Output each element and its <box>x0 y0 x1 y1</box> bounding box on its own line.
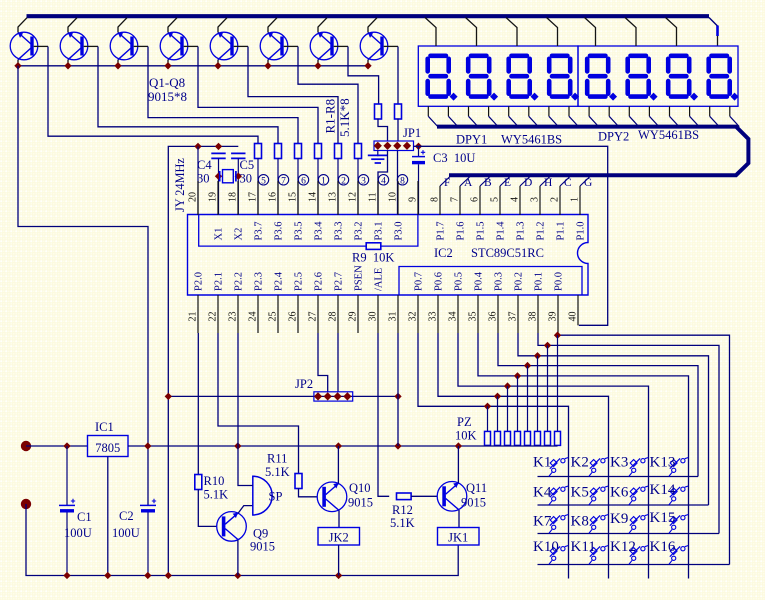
junction RST node <box>415 143 422 150</box>
svg-text:P1.6: P1.6 <box>456 222 467 241</box>
svg-text:P1.2: P1.2 <box>536 222 547 241</box>
digit 1 <box>428 56 458 101</box>
svg-text:1: 1 <box>321 176 326 186</box>
bus entry pin 7 <box>460 176 471 186</box>
svg-text:5.1K: 5.1K <box>265 465 290 479</box>
wire net P0.3 <box>498 333 698 477</box>
switch K3 <box>629 458 649 477</box>
wire key row 2 <box>538 504 709 506</box>
junction X1 <box>215 173 222 180</box>
pin 11 <box>377 181 379 215</box>
junction Q5 collector <box>214 62 221 69</box>
svg-text:IC2: IC2 <box>434 246 453 260</box>
resistor R3 <box>295 144 302 159</box>
svg-text:D: D <box>524 177 532 189</box>
wire R1 to pin <box>257 159 259 216</box>
wire pin30 to R12 <box>378 333 389 496</box>
pin 15 <box>297 181 299 215</box>
svg-text:5: 5 <box>261 176 266 186</box>
transistor Q3 <box>110 18 148 66</box>
connector JP2 <box>314 392 353 401</box>
wire pin28 to JP2 <box>337 333 339 392</box>
resistor R1 <box>255 144 262 159</box>
svg-text:P0.3: P0.3 <box>494 272 505 291</box>
pin 24 <box>257 295 259 333</box>
wire pin31 to +5V <box>397 333 399 446</box>
switch K13 <box>669 458 689 477</box>
svg-text:6: 6 <box>301 176 306 186</box>
speaker SP <box>253 476 272 515</box>
svg-text:K6: K6 <box>610 485 629 501</box>
svg-text:2: 2 <box>550 197 561 202</box>
pin 21 <box>197 295 199 333</box>
pin 10 <box>397 181 399 215</box>
wire pin23 to SP <box>238 333 253 486</box>
svg-text:19: 19 <box>208 192 219 202</box>
switch K4 <box>549 486 569 505</box>
wire X1 <box>218 158 220 215</box>
svg-text:E: E <box>504 177 511 189</box>
svg-text:P2.7: P2.7 <box>334 272 345 291</box>
wire display segment pin 16 <box>729 106 731 116</box>
junction pin20 gnd <box>194 143 201 150</box>
wire X2 <box>237 158 239 215</box>
svg-text:4: 4 <box>510 197 521 202</box>
svg-text:1: 1 <box>570 197 581 202</box>
node label (2) <box>338 175 348 185</box>
svg-text:K9: K9 <box>610 511 628 527</box>
svg-text:K5: K5 <box>571 485 589 501</box>
pin 23 <box>237 295 239 333</box>
wire JP1 to pin11 <box>378 151 388 216</box>
wire pin20 <box>197 146 199 215</box>
transistor Q10 <box>317 482 347 512</box>
svg-text:JY 24MHz: JY 24MHz <box>173 158 187 212</box>
svg-text:K16: K16 <box>650 539 676 555</box>
pin 4 <box>519 186 521 215</box>
svg-text:P3.5: P3.5 <box>294 222 305 241</box>
wire Q3 base to R3 <box>148 47 298 144</box>
wire +5V left route <box>18 66 148 505</box>
svg-text:B: B <box>484 177 492 189</box>
display DPY2 WY5461BS <box>578 46 738 106</box>
transistor Q8 <box>360 18 398 66</box>
transistor Q2 <box>60 18 98 66</box>
wire digit 1 anode <box>425 18 436 47</box>
wire display segment pin 10 <box>608 106 610 116</box>
resistor network PZ element 1 <box>484 403 491 410</box>
wire collector rail <box>18 65 368 67</box>
wire R4 to pin <box>317 159 319 216</box>
svg-text:5.1K: 5.1K <box>390 516 415 530</box>
svg-text:P2.6: P2.6 <box>314 272 325 291</box>
svg-text:SP: SP <box>269 490 283 504</box>
svg-text:C3 10U: C3 10U <box>433 151 475 165</box>
resistor R4 <box>315 144 322 159</box>
bus entry pin 6 <box>480 176 491 186</box>
switch K7 <box>549 515 569 534</box>
wire display segment pin 13 <box>669 106 671 116</box>
resistor network PZ element 5 <box>524 362 531 369</box>
svg-text:WY5461BS: WY5461BS <box>501 133 562 147</box>
bus entry pin 8 <box>440 176 451 186</box>
terminal VIN- <box>21 499 31 509</box>
crystal JY 24MHz <box>220 171 236 182</box>
svg-text:C1: C1 <box>77 510 92 524</box>
pin 22 <box>217 295 219 333</box>
pin 2 <box>559 186 561 215</box>
svg-text:22: 22 <box>208 312 219 322</box>
svg-text:30: 30 <box>197 172 210 186</box>
transistor Q6 <box>260 18 298 66</box>
pin 5 <box>499 186 501 215</box>
svg-text:P0.4: P0.4 <box>474 271 485 291</box>
svg-text:K12: K12 <box>610 539 636 555</box>
wire display segment pin 4 <box>488 106 490 116</box>
svg-text:P0.1: P0.1 <box>534 272 545 291</box>
svg-text:IC1: IC1 <box>95 420 114 434</box>
svg-text:32: 32 <box>408 312 419 322</box>
wire display segment pin 3 <box>468 106 470 116</box>
svg-text:G: G <box>584 177 592 189</box>
svg-text:X1: X1 <box>214 228 225 241</box>
svg-text:6: 6 <box>470 197 481 202</box>
svg-text:18: 18 <box>228 192 239 202</box>
svg-text:K2: K2 <box>571 455 589 471</box>
wire display segment pin 11 <box>628 106 630 116</box>
svg-text:4: 4 <box>381 176 386 186</box>
resistor network PZ element 6 <box>534 352 541 359</box>
svg-text:8: 8 <box>400 176 405 186</box>
terminal VIN+ <box>21 441 31 451</box>
wire Q1 base to R1 <box>48 47 258 144</box>
switch K2 <box>589 458 609 477</box>
wire key row 3 <box>538 533 720 535</box>
wire pin21 to R10 <box>197 333 199 475</box>
svg-text:C5: C5 <box>240 158 255 172</box>
svg-text:7: 7 <box>281 176 286 186</box>
pin 8 <box>439 186 441 215</box>
svg-text:Q9: Q9 <box>253 527 268 541</box>
pin 18 <box>237 181 239 215</box>
svg-text:P0.5: P0.5 <box>454 272 465 291</box>
node label (5) <box>258 175 268 185</box>
svg-text:P0.6: P0.6 <box>434 272 445 291</box>
pin 34 <box>457 295 459 333</box>
svg-text:P2.5: P2.5 <box>294 272 305 291</box>
resistor R10 <box>195 475 202 490</box>
pin 27 <box>317 295 319 333</box>
svg-text:9015*8: 9015*8 <box>148 89 187 104</box>
pin 14 <box>317 181 319 215</box>
transistor Q5 <box>210 18 248 66</box>
junction Q3 collector <box>114 62 121 69</box>
wire Q8 base to R8 <box>397 47 399 105</box>
wire R7 to JP1 <box>378 119 388 142</box>
switch K6 <box>629 486 649 505</box>
wire display segment pin 7 <box>548 106 550 116</box>
junction X2 <box>235 173 242 180</box>
svg-text:P3.2: P3.2 <box>354 222 365 241</box>
svg-text:34: 34 <box>448 312 459 322</box>
svg-text:14: 14 <box>308 192 319 202</box>
bus entry pin 1 <box>580 176 591 186</box>
pin 32 <box>417 295 419 333</box>
svg-text:10K: 10K <box>455 429 477 443</box>
bus entry pin 5 <box>500 176 511 186</box>
wire Q11 collector <box>457 446 459 483</box>
junction Q8 collector <box>364 62 371 69</box>
wire Q5 base to R5 <box>248 47 338 144</box>
svg-text:DPY1: DPY1 <box>456 133 487 147</box>
svg-text:P3.4: P3.4 <box>314 221 325 241</box>
switch K15 <box>669 515 689 534</box>
svg-text:36: 36 <box>488 312 499 322</box>
pin 6 <box>479 186 481 215</box>
svg-text:F: F <box>444 177 450 189</box>
pin 29 <box>357 295 359 333</box>
wire digit 7 anode <box>666 18 677 47</box>
svg-text:P2.3: P2.3 <box>254 272 265 291</box>
digit 7 <box>668 56 698 101</box>
svg-text:5: 5 <box>490 197 501 202</box>
bus entry pin 4 <box>520 176 531 186</box>
VCC bus bar (top) <box>27 14 710 18</box>
svg-text:A: A <box>464 177 473 189</box>
svg-text:R9 10K: R9 10K <box>352 251 394 265</box>
svg-text:P2.0: P2.0 <box>194 272 205 291</box>
svg-text:Q10: Q10 <box>349 481 371 495</box>
digit 5 <box>587 56 617 101</box>
svg-text:12: 12 <box>348 192 359 202</box>
wire net P0.1 <box>538 333 719 534</box>
wire R12 to Q11 base <box>411 495 437 497</box>
svg-text:7805: 7805 <box>95 441 120 455</box>
svg-text:35: 35 <box>468 312 479 322</box>
svg-text:P1.0: P1.0 <box>576 222 587 241</box>
wire ground rail (bottom) <box>26 504 458 576</box>
wire net P0.7 <box>418 333 569 579</box>
svg-text:24: 24 <box>248 312 259 322</box>
wire key row 1 <box>538 476 699 478</box>
svg-text:3: 3 <box>361 176 366 186</box>
svg-text:JP2: JP2 <box>295 377 313 391</box>
svg-text:K3: K3 <box>610 455 628 471</box>
svg-text:R12: R12 <box>392 503 413 517</box>
wire ground bus (crystal) <box>168 146 238 575</box>
node label (3) <box>358 175 368 185</box>
wire JP2 net <box>168 395 398 397</box>
node label (1) <box>318 175 328 185</box>
wire R10 to Q9 base <box>198 490 217 527</box>
switch K9 <box>629 515 649 534</box>
svg-text:C: C <box>564 177 572 189</box>
inner box (P0 group) <box>399 267 582 296</box>
capacitor C4 30 <box>211 153 225 158</box>
svg-text:26: 26 <box>288 312 299 322</box>
pin 30 <box>377 295 379 333</box>
wire digit 6 anode <box>625 18 636 47</box>
bus entry pin 2 <box>560 176 571 186</box>
resistor R9 <box>366 243 381 250</box>
resistor R8 <box>395 104 402 119</box>
pin 16 <box>277 181 279 215</box>
svg-text:JP1: JP1 <box>403 126 421 140</box>
svg-text:R1-R8: R1-R8 <box>323 99 338 134</box>
svg-text:30: 30 <box>368 312 379 322</box>
switch K16 <box>669 546 689 565</box>
junction Q2 collector <box>64 62 71 69</box>
svg-text:K10: K10 <box>533 539 559 555</box>
pin 3 <box>539 186 541 215</box>
svg-text:13: 13 <box>328 192 339 202</box>
relay jack JK2 <box>318 528 360 546</box>
wire net P0.4 <box>478 333 689 579</box>
wire Q9 collector to SP <box>238 506 253 514</box>
svg-text:/ALE: /ALE <box>374 268 385 291</box>
switch K1 <box>549 458 569 477</box>
wire 7805 gnd <box>107 457 109 576</box>
pin 25 <box>277 295 279 333</box>
svg-text:K7: K7 <box>533 514 552 530</box>
wire Q11 emitter <box>458 510 460 528</box>
svg-text:28: 28 <box>328 312 339 322</box>
transistor Q1 <box>10 18 48 66</box>
svg-text:40: 40 <box>568 312 579 322</box>
resistor R2 <box>275 144 282 159</box>
wire R5 to pin <box>337 159 339 216</box>
svg-text:P3.3: P3.3 <box>334 222 345 241</box>
svg-text:JK2: JK2 <box>329 531 349 545</box>
wire display segment pin 1 <box>427 106 429 116</box>
pin 31 <box>397 295 399 333</box>
switch K14 <box>669 486 689 505</box>
svg-text:30: 30 <box>240 172 253 186</box>
svg-text:P2.1: P2.1 <box>214 272 225 291</box>
pin 37 <box>517 295 519 333</box>
wire digit 2 anode <box>466 18 477 47</box>
resistor network PZ element 4 <box>514 372 521 379</box>
wire digit 3 anode <box>506 18 517 47</box>
svg-text:9015: 9015 <box>461 496 486 510</box>
VCC bus end chamfer <box>709 18 718 27</box>
wire digit 4 anode <box>547 18 558 47</box>
pin 26 <box>297 295 299 333</box>
pin 40 <box>577 295 579 325</box>
wire Q7 base to R7 <box>348 47 379 105</box>
pin 19 <box>217 181 219 215</box>
junction Q6 collector <box>264 62 271 69</box>
svg-text:P1.1: P1.1 <box>556 222 567 241</box>
transistor Q11 <box>437 482 467 512</box>
wire display segment pin 12 <box>648 106 650 116</box>
resistor R5 <box>335 144 342 159</box>
svg-text:29: 29 <box>348 312 359 322</box>
wire R11 to Q10 base <box>299 489 318 497</box>
wire Q2 base to R2 <box>98 47 278 144</box>
node label (6) <box>298 175 308 185</box>
svg-text:C4: C4 <box>197 158 212 172</box>
svg-text:2: 2 <box>341 176 346 186</box>
svg-text:25: 25 <box>268 312 279 322</box>
transistor Q4 <box>160 18 198 66</box>
capacitor C3 10U <box>418 146 420 156</box>
wire display segment pin 14 <box>689 106 691 116</box>
wire net P0.6 <box>438 333 609 579</box>
svg-text:H: H <box>544 177 552 189</box>
wire key row 4 <box>538 564 730 566</box>
pin 7 <box>459 186 461 215</box>
svg-text:P0.2: P0.2 <box>514 272 525 291</box>
svg-text:21: 21 <box>188 312 199 322</box>
wire pin22 to R11 <box>218 333 299 474</box>
capacitor C5 30 <box>231 153 245 158</box>
pin 39 <box>557 295 559 333</box>
wire Q4 base to R4 <box>198 47 318 144</box>
connector JP1 <box>374 141 414 151</box>
wire RST to pin40 <box>414 146 608 325</box>
svg-text:P1.5: P1.5 <box>476 222 487 241</box>
wire R6 to pin <box>357 159 359 216</box>
wire Q10 collector <box>337 446 339 484</box>
pin 20 <box>197 181 199 215</box>
svg-text:P3.7: P3.7 <box>254 222 265 241</box>
switch K12 <box>629 546 649 565</box>
pin 17 <box>257 181 259 215</box>
svg-text:100U: 100U <box>64 526 92 540</box>
capacitor C1 100U <box>66 446 68 505</box>
svg-text:DPY2: DPY2 <box>598 130 629 144</box>
pin 38 <box>537 295 539 333</box>
wire net P0.2 <box>518 333 709 505</box>
digit 2 <box>468 56 498 101</box>
wire net P0.0 <box>558 333 730 565</box>
svg-text:9015: 9015 <box>348 496 373 510</box>
regulator IC1 7805 <box>88 436 129 457</box>
svg-text:Q1-Q8: Q1-Q8 <box>149 75 185 90</box>
svg-text:5.1K: 5.1K <box>204 488 229 502</box>
ground (JP1 pin1) <box>377 151 379 157</box>
node label (8) <box>397 175 407 185</box>
svg-text:38: 38 <box>528 312 539 322</box>
svg-text:20: 20 <box>188 192 199 202</box>
svg-text:9: 9 <box>408 197 419 202</box>
svg-text:JK1: JK1 <box>448 531 468 545</box>
pin 9 <box>417 181 419 215</box>
svg-text:K13: K13 <box>650 455 676 471</box>
wire display segment pin 5 <box>508 106 510 116</box>
svg-text:R11: R11 <box>267 452 287 466</box>
svg-text:PSEN: PSEN <box>354 265 365 291</box>
svg-text:27: 27 <box>308 312 319 322</box>
svg-text:C2: C2 <box>119 509 134 523</box>
digit 6 <box>628 56 658 101</box>
wire Q10 emitter <box>338 510 340 527</box>
svg-text:P1.7: P1.7 <box>436 222 447 241</box>
svg-text:P0.7: P0.7 <box>414 272 425 291</box>
svg-text:5.1K*8: 5.1K*8 <box>337 98 352 137</box>
wire pin27 to JP2 <box>318 333 328 392</box>
pin 13 <box>337 181 339 215</box>
svg-text:Q11: Q11 <box>466 481 487 495</box>
pin 33 <box>437 295 439 333</box>
wire JP1 to pin10 <box>397 151 399 216</box>
switch K10 <box>549 546 569 565</box>
svg-text:P1.4: P1.4 <box>496 221 507 241</box>
digit 4 <box>549 56 579 101</box>
digit 8 <box>709 56 739 101</box>
wire digit 5 anode <box>585 18 596 47</box>
